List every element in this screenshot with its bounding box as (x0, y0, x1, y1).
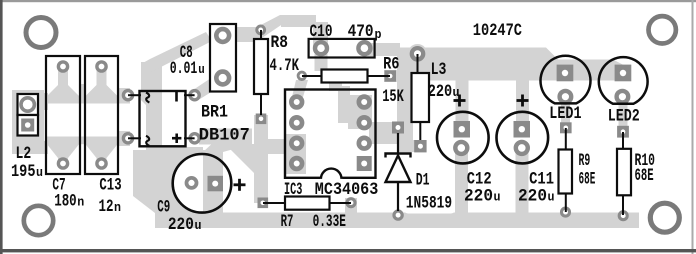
svg-text:u: u (195, 218, 202, 233)
svg-text:220: 220 (518, 187, 547, 206)
svg-text:R8: R8 (271, 34, 289, 53)
svg-text:195: 195 (11, 163, 36, 182)
svg-text:C10: C10 (310, 23, 333, 42)
svg-text:u: u (494, 189, 501, 204)
svg-text:4.7K: 4.7K (270, 57, 300, 76)
svg-text:R7: R7 (281, 213, 294, 232)
svg-text:LED2: LED2 (608, 108, 640, 127)
svg-text:68E: 68E (579, 171, 596, 190)
svg-text:1N5819: 1N5819 (406, 194, 452, 213)
svg-text:470: 470 (348, 23, 374, 42)
svg-text:15K: 15K (382, 88, 404, 107)
svg-text:C9: C9 (157, 198, 170, 217)
svg-text:u: u (198, 62, 205, 77)
svg-text:0.01: 0.01 (170, 60, 198, 79)
svg-text:0.33E: 0.33E (313, 213, 346, 232)
svg-text:10247C: 10247C (473, 22, 522, 41)
svg-text:D1: D1 (416, 172, 430, 191)
svg-text:R6: R6 (383, 55, 399, 74)
svg-text:220: 220 (168, 216, 194, 235)
svg-text:MC34063: MC34063 (315, 181, 379, 200)
svg-text:R9: R9 (579, 152, 591, 171)
svg-text:n: n (114, 200, 121, 215)
svg-text:180: 180 (54, 193, 76, 212)
svg-text:220: 220 (464, 187, 493, 206)
svg-text:u: u (548, 189, 555, 204)
svg-text:u: u (453, 85, 460, 100)
svg-text:IC3: IC3 (284, 181, 302, 200)
svg-text:LED1: LED1 (549, 105, 581, 124)
svg-text:L3: L3 (431, 61, 447, 80)
svg-text:u: u (36, 165, 43, 180)
svg-text:n: n (77, 195, 84, 210)
svg-text:C13: C13 (99, 177, 121, 196)
svg-text:BR1: BR1 (201, 104, 228, 123)
svg-text:220: 220 (428, 83, 453, 102)
svg-text:DB107: DB107 (199, 127, 250, 146)
svg-text:p: p (375, 27, 382, 42)
svg-text:68E: 68E (635, 167, 654, 186)
svg-text:12: 12 (99, 198, 114, 217)
svg-text:L2: L2 (16, 145, 32, 164)
